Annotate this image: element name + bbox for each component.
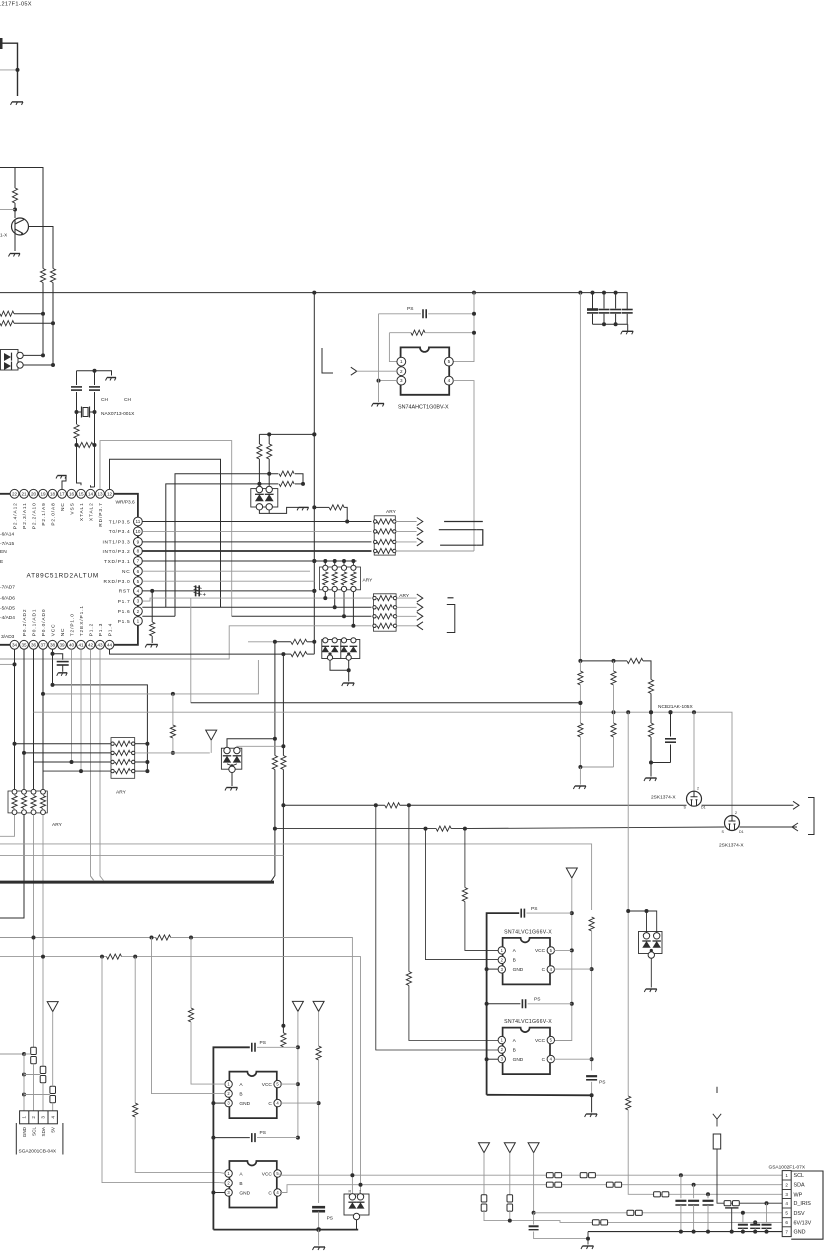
U1 left side labels (cut) xyxy=(0,532,15,622)
wire R21 tail xyxy=(613,685,615,712)
junction crystal nodes xyxy=(75,410,97,414)
wire NT4 col lower xyxy=(318,1060,320,1203)
wire T1/P3.5 line xyxy=(142,521,371,523)
ground D2 xyxy=(297,507,309,510)
wire x=43 down to diode xyxy=(42,314,44,356)
wire video out2 mid xyxy=(451,827,724,829)
wire join y=762.5 xyxy=(651,762,671,764)
wire R33 to pinA xyxy=(465,902,499,951)
resistor R18 in x=283.4 xyxy=(281,756,286,770)
svg-text:D1: D1 xyxy=(701,806,706,810)
U2 pin 4 xyxy=(445,376,454,385)
wire U4 A input xyxy=(408,805,410,971)
title text A1217F1-05X xyxy=(0,2,32,8)
wire U5 B input xyxy=(152,938,226,1094)
resistor R32 xyxy=(133,1103,138,1117)
capacitor bypass xyxy=(675,1201,686,1205)
wire x=283.4 gap xyxy=(282,1026,284,1033)
wire RST pulldown xyxy=(151,591,153,622)
resistor R17 in x=274.9 xyxy=(272,756,277,770)
junction R14 left xyxy=(273,640,277,644)
svg-text:34: 34 xyxy=(12,642,18,647)
resistor R23 xyxy=(578,723,583,737)
wire VCC pin38 down xyxy=(52,649,54,685)
label ARY1 xyxy=(386,509,397,515)
svg-text:ARY: ARY xyxy=(363,578,374,584)
resistor R24 xyxy=(611,723,616,737)
wire R21 leg xyxy=(613,661,615,671)
svg-text:C: C xyxy=(542,1057,546,1063)
svg-text:P2.1/A9: P2.1/A9 xyxy=(41,502,47,525)
wire VCC col x=147.4 xyxy=(146,744,148,771)
svg-text:VCC: VCC xyxy=(535,1038,546,1044)
wire vertical x=274.9 upper xyxy=(274,642,276,756)
arrow out ARY2 xyxy=(417,603,423,611)
svg-text:C: C xyxy=(542,967,546,973)
svg-text:6: 6 xyxy=(137,569,140,574)
capacitor C12 PS U3 xyxy=(521,909,524,918)
capacitor C19 xyxy=(750,1225,760,1229)
svg-text:8: 8 xyxy=(137,549,140,554)
wire SCL branch x=191 xyxy=(190,938,192,1009)
label PS C15 xyxy=(260,1040,266,1046)
resistor R25 xyxy=(648,723,653,737)
EMI filter FL2 SDA xyxy=(40,1066,46,1082)
junction pin34 y=664.4 xyxy=(13,662,17,666)
EMI filter FL3 5V xyxy=(50,1086,56,1102)
svg-text:T2EX/P1.1: T2EX/P1.1 xyxy=(79,605,85,636)
Q3 pin labels xyxy=(722,811,744,834)
U1 bottom pin labels xyxy=(1,605,113,640)
svg-text:-7/AD7: -7/AD7 xyxy=(0,585,15,591)
wire pin12 net WR xyxy=(110,459,221,607)
wire pin3 to ground xyxy=(379,380,397,382)
EMI bead FB1 on SCL xyxy=(546,1173,561,1178)
wire rail gnd stub xyxy=(318,1230,320,1246)
wire gnd stub x=591.6 xyxy=(591,1095,593,1112)
ground xtal shield xyxy=(106,378,117,381)
antenna stub mark xyxy=(716,1087,718,1093)
wire cap2 to crystal node xyxy=(94,392,96,487)
svg-text:ARY: ARY xyxy=(386,509,397,515)
wire D6 pin1 stub xyxy=(646,911,648,933)
svg-text:41: 41 xyxy=(78,642,84,647)
wire D5 to rail xyxy=(356,1220,358,1230)
svg-text:P2.3/A11: P2.3/A11 xyxy=(22,502,28,529)
wire cap col upper xyxy=(680,1175,682,1198)
wire R25 leg xyxy=(650,712,652,723)
junctions x=274.9 xyxy=(273,737,277,831)
wire NT1 stem xyxy=(210,740,212,753)
wire PS cap net left xyxy=(379,313,422,315)
wire Q2 gate xyxy=(693,712,695,791)
wire xtal cap2 top xyxy=(94,371,96,385)
wire D6 top rail xyxy=(628,911,657,933)
capacitor C20 xyxy=(762,1225,772,1229)
svg-text:-5/AD5: -5/AD5 xyxy=(0,606,15,612)
wire SDA branch x=135.2 xyxy=(134,957,136,1103)
analog switch U4 SN74LVC1G66V-X xyxy=(498,1019,554,1074)
wire cap col 6V xyxy=(754,1221,756,1223)
ground reset xyxy=(145,645,158,648)
wire ARY2 row4 out xyxy=(396,625,417,627)
capacitor C4 xyxy=(622,310,633,313)
wire U4 C out xyxy=(554,1058,592,1060)
wire D2 bottoms join xyxy=(259,510,269,513)
svg-text:17: 17 xyxy=(59,491,65,496)
wire net y=702.7 xyxy=(191,702,581,704)
wire C14 to rail xyxy=(318,1212,320,1230)
svg-text:P0.1/AD1: P0.1/AD1 xyxy=(31,609,37,637)
wire GND feed CN1 xyxy=(0,1053,24,1055)
wire R12 top leg xyxy=(268,434,270,444)
resistor R12 xyxy=(267,444,272,459)
wire row2 left xyxy=(24,752,111,754)
svg-text:SDA: SDA xyxy=(794,1183,805,1189)
wire col x=509.8 xyxy=(509,1153,511,1196)
wire U6 A input tail xyxy=(219,1172,225,1173)
junctions CN1 gnd col xyxy=(22,1052,26,1097)
resistor R34 xyxy=(406,972,411,986)
U2 pin 1 xyxy=(397,357,406,366)
net triangle x=509.8 xyxy=(504,1143,515,1153)
wire Q1 collector to vertical x=53 xyxy=(29,227,54,269)
ARY2 resistor row xyxy=(373,623,397,628)
ground below top-left node xyxy=(11,102,24,105)
wire ARY5 pin34 tail xyxy=(0,815,15,837)
resistor R10 y=483.9 xyxy=(279,481,294,486)
dual diode package D1 (cut at edge) xyxy=(1,350,24,371)
wire pin42 south xyxy=(91,649,95,880)
svg-text:E: E xyxy=(0,559,3,565)
arrow out ARY2 xyxy=(417,594,423,602)
arrow out2 xyxy=(792,823,798,831)
wire R9 to corner xyxy=(295,474,303,484)
wire ARY3 r3 down xyxy=(343,592,345,617)
wire VCC rail y=684.9 xyxy=(53,685,148,744)
resistor R37 x=628.2 xyxy=(626,1096,631,1110)
wire cap bottom stub xyxy=(603,314,605,325)
CN2 outer bracket xyxy=(791,1171,823,1239)
wire ARY3 r2 down xyxy=(334,592,336,608)
wire U6 VCC out / SCL line xyxy=(280,1174,782,1176)
capacitor C5 PS xyxy=(423,309,426,318)
wire NCB top rail xyxy=(580,660,627,662)
svg-text:42: 42 xyxy=(88,642,94,647)
wire feedback left down to pin1 xyxy=(389,333,397,362)
resistor R_base vertical xyxy=(12,188,17,203)
wire cap col D-IRIS xyxy=(766,1203,768,1223)
svg-text:14: 14 xyxy=(88,491,94,496)
svg-text:7: 7 xyxy=(785,1229,788,1234)
wire video out1b xyxy=(702,804,794,806)
svg-text:P1.3: P1.3 xyxy=(98,623,104,636)
wire pin37 south xyxy=(42,649,44,791)
svg-text:T0/P3.4: T0/P3.4 xyxy=(109,529,131,535)
svg-text:CH: CH xyxy=(124,397,131,403)
wire U3 A input xyxy=(464,829,466,888)
ferrite segment B y=529.7 xyxy=(439,529,476,531)
wire cap top stub xyxy=(615,293,617,309)
wire SCL net y=937.5 xyxy=(0,937,156,939)
svg-text:RST: RST xyxy=(119,589,131,595)
svg-text:2: 2 xyxy=(400,369,403,374)
wire pin35 south xyxy=(23,649,25,791)
junction 6V taps xyxy=(753,1220,757,1224)
wire resistor R_b top xyxy=(14,168,16,189)
svg-text:2: 2 xyxy=(359,1190,361,1194)
ferrite bracket xyxy=(476,530,483,546)
junctions VCC rail x=571.8 xyxy=(570,911,574,1006)
junction pin3 net xyxy=(377,379,381,383)
EMI bead FB3 on SCL xyxy=(580,1173,595,1178)
wire 5V col xyxy=(52,1012,54,1087)
wire NC pin6 stub xyxy=(142,570,310,572)
junction y=703 xyxy=(578,701,582,705)
wire R13 legs xyxy=(314,506,329,508)
wire cap bottom stub xyxy=(615,314,617,325)
label PS C14 xyxy=(327,1216,333,1222)
svg-text:VSS: VSS xyxy=(69,502,75,514)
wire cap col lower xyxy=(680,1205,682,1232)
junction D1 nets xyxy=(41,353,55,367)
svg-text:INT1/P3.3: INT1/P3.3 xyxy=(102,540,130,546)
ground C9 xyxy=(57,673,67,676)
svg-text:-6/A14: -6/A14 xyxy=(0,532,14,538)
wire pin41 south xyxy=(80,649,82,771)
svg-text:SCL: SCL xyxy=(794,1173,805,1179)
label PS C13 xyxy=(534,997,540,1003)
capacitor C15 PS U5 xyxy=(252,1043,255,1052)
net triangle NT4 xyxy=(313,1001,324,1011)
svg-text:P2.0/A8: P2.0/A8 xyxy=(50,502,56,525)
U1 top pin row 22-12 xyxy=(10,489,114,498)
wire U3 rail down xyxy=(486,969,488,1095)
junction P5 x=314.3 taps xyxy=(312,505,316,593)
svg-text:NAX0713-001X: NAX0713-001X xyxy=(101,411,135,417)
analog switch U3 SN74LVC1G66V-X xyxy=(498,929,554,984)
wire x=591.6 bottom xyxy=(591,1082,593,1096)
svg-text:4: 4 xyxy=(448,378,451,383)
wire FL1 tab xyxy=(24,1053,31,1055)
wire y=693.9 line xyxy=(43,660,258,694)
wire y=167.5 to vertical x=43 xyxy=(0,168,43,269)
wire SDA branch x=102 xyxy=(102,957,219,1183)
svg-text:37: 37 xyxy=(40,642,46,647)
resistor array ARY3 box xyxy=(320,567,361,590)
resistor R28 x=591.6 xyxy=(589,917,594,931)
capacitor C8 reset (polarized) xyxy=(194,585,202,596)
wire cap bottom stub xyxy=(626,314,628,325)
svg-text:TXD/P3.1: TXD/P3.1 xyxy=(104,559,130,565)
junction D3 gnd xyxy=(347,668,351,672)
svg-text:38: 38 xyxy=(50,642,56,647)
arrow out xyxy=(417,518,423,526)
op-amp/gate U2 SN74AHCT1G0BV-X body xyxy=(401,347,450,394)
junctions x43/x53 xyxy=(41,312,55,326)
wire R2 down across bus xyxy=(52,283,54,324)
label CN2 part number xyxy=(769,1164,806,1170)
wire gnd rail y=767 xyxy=(580,766,613,768)
resistor R29 SCL xyxy=(156,935,171,940)
wire ARY2 out xyxy=(396,615,417,617)
wire vertical x=283.4 lower xyxy=(282,770,284,1026)
svg-text:SN74AHCT1G0BV-X: SN74AHCT1G0BV-X xyxy=(398,405,449,411)
svg-text:P1.4: P1.4 xyxy=(107,623,113,636)
wire xtal2 down to pin14 xyxy=(91,485,95,487)
junctions U3 rail xyxy=(485,967,489,1061)
wire P1.7 row y=598.1 xyxy=(142,598,371,601)
junctions VCC xyxy=(51,652,55,687)
wire R8 to ground xyxy=(151,636,153,643)
junctions SCL line bottom xyxy=(350,1173,683,1177)
svg-text:VCC: VCC xyxy=(262,1082,273,1088)
wire P1.5 row left seg xyxy=(142,615,175,617)
wire P1.6 row y=607.3 xyxy=(142,606,371,608)
svg-text:GSA1002F1-07X: GSA1002F1-07X xyxy=(769,1164,806,1170)
wire ARY1 out xyxy=(395,541,416,543)
wire PS cap to P5 xyxy=(428,313,474,315)
wire row4 feed y=659 xyxy=(0,626,372,659)
capacitor C_top-left (cut off at edge) xyxy=(0,38,3,49)
wire ARY2 out xyxy=(396,606,417,608)
wire video out2 y=826 xyxy=(275,828,436,830)
svg-text:4: 4 xyxy=(785,1201,788,1206)
label PS C12 xyxy=(531,906,537,912)
junction row2 xyxy=(171,751,175,755)
junctions x=591.6 xyxy=(590,967,594,1097)
EMI filter FL4 xyxy=(481,1195,487,1211)
wire bead cap stub xyxy=(731,1208,733,1232)
net triangle NT5 5V xyxy=(47,1002,58,1012)
svg-text:5: 5 xyxy=(448,359,451,364)
svg-text:CH: CH xyxy=(101,397,108,403)
resistor R16 x=172.9 xyxy=(170,725,175,738)
svg-text:SDA: SDA xyxy=(41,1126,46,1136)
ARY4 resistor row xyxy=(111,741,135,746)
svg-text:5: 5 xyxy=(785,1211,788,1216)
wire U5 VCC out xyxy=(280,1083,298,1085)
wire pin4 to x=474 going south xyxy=(453,381,474,551)
svg-text:NC: NC xyxy=(60,628,66,637)
svg-text:ARY: ARY xyxy=(116,790,127,796)
wire D3 gnd join xyxy=(330,660,349,670)
wire 6V line xyxy=(534,1221,783,1223)
resistor R35 x=283.4 xyxy=(281,1033,286,1047)
arrow in ARY2 row4 xyxy=(417,622,423,630)
resistor R9 y=473.7 xyxy=(279,471,294,476)
resistor R33 xyxy=(462,888,467,902)
wire row4 right xyxy=(135,770,148,772)
label ARY5 xyxy=(52,822,63,828)
svg-text:B: B xyxy=(513,1047,516,1053)
wire U5 GND pin xyxy=(213,1102,225,1104)
wire video out2b xyxy=(740,826,798,828)
resistor R31 xyxy=(188,1008,193,1022)
wire col x=484 down xyxy=(484,1210,534,1221)
wire net y=712.2 xyxy=(34,712,733,815)
svg-text:GND: GND xyxy=(22,1126,27,1137)
svg-text:VCC: VCC xyxy=(535,948,546,954)
svg-text:XTAL1: XTAL1 xyxy=(79,502,85,521)
wire R35 to PS line xyxy=(282,1046,284,1049)
wire R14 legs xyxy=(275,641,291,643)
svg-text:EN: EN xyxy=(0,549,7,555)
svg-text:DSV: DSV xyxy=(794,1211,805,1217)
capacitor C14 (PS thick) xyxy=(312,1207,325,1211)
wire ARY3 r1 down xyxy=(324,592,326,599)
wire net y=843.9 xyxy=(0,844,592,910)
wire FL3 down xyxy=(52,1103,54,1111)
svg-text:SN74LVC1G66V-X: SN74LVC1G66V-X xyxy=(504,929,552,935)
wire row3 left xyxy=(34,761,112,763)
wire U4 PS rail xyxy=(487,1003,521,1005)
wire row1 right to VCC xyxy=(135,743,148,745)
wire U4 B input xyxy=(376,805,499,1050)
wire FL3 tab xyxy=(24,1094,50,1096)
svg-text:GND: GND xyxy=(239,1101,250,1107)
wire x=53 down to diode xyxy=(52,323,54,365)
resistor R4 horizontal y=323.2 xyxy=(0,321,14,326)
svg-text:ARY: ARY xyxy=(52,822,63,828)
wire SCL net right xyxy=(171,938,353,1194)
svg-text:40: 40 xyxy=(69,642,75,647)
resistor R21 xyxy=(611,671,616,685)
svg-text:11: 11 xyxy=(136,519,141,524)
resistor R14 y=641.8 xyxy=(291,639,307,644)
resistor R19 NCB top xyxy=(627,658,643,663)
wire D1 pin2 to x=53 xyxy=(23,364,53,366)
wire R6 to y=445 xyxy=(76,439,78,446)
ARY4 resistor row xyxy=(111,750,135,755)
label NCB21AK-105X xyxy=(658,704,693,710)
resistor R15 y=654.1 xyxy=(291,652,307,657)
junctions x=297.9 xyxy=(296,1045,300,1139)
CN1 pin labels xyxy=(22,1126,56,1137)
capacitor C18 xyxy=(738,1225,748,1229)
svg-text:18: 18 xyxy=(50,491,56,496)
svg-text:36: 36 xyxy=(31,642,37,647)
wire cap top stub xyxy=(603,293,605,309)
U1 right pin row 11-1 xyxy=(134,517,143,625)
resistor R26 on out1 xyxy=(385,803,400,808)
wire C17 stub xyxy=(533,1213,535,1225)
wire cap col DSV xyxy=(742,1213,744,1223)
wire R14 to P5 xyxy=(307,641,314,643)
junction on vertical x=17.5 xyxy=(16,68,20,72)
wire R25 tail xyxy=(650,737,652,763)
wire input to pin2 xyxy=(357,370,397,372)
svg-text:3: 3 xyxy=(41,1116,46,1119)
svg-text:D_IRIS: D_IRIS xyxy=(794,1201,812,1207)
wire U4 GND pin xyxy=(487,1058,499,1060)
svg-text:3: 3 xyxy=(785,1192,788,1197)
wire R16 to row2 xyxy=(172,738,174,753)
wire R3 to x=43 xyxy=(14,313,43,315)
svg-text:2: 2 xyxy=(31,1116,36,1119)
junction WP line xyxy=(706,1192,710,1196)
wire ARY5 pin36 tail xyxy=(33,815,35,1049)
wire cap col upper xyxy=(707,1194,709,1198)
svg-text:43: 43 xyxy=(97,642,103,647)
svg-text:1: 1 xyxy=(785,1173,788,1178)
svg-text:AT89C51RD2ALTUM: AT89C51RD2ALTUM xyxy=(27,573,100,580)
svg-text:P0.2/AD2: P0.2/AD2 xyxy=(22,609,28,637)
net triangle NT2 power xyxy=(566,868,577,878)
wire INT1/P3.3 line xyxy=(142,541,371,543)
label PS C11 xyxy=(599,1080,605,1086)
wire D1 pin1 to x=43 xyxy=(23,354,43,356)
